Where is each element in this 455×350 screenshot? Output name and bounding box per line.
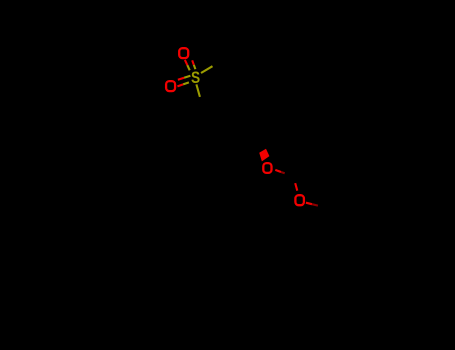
svg-text:S: S bbox=[191, 69, 200, 87]
